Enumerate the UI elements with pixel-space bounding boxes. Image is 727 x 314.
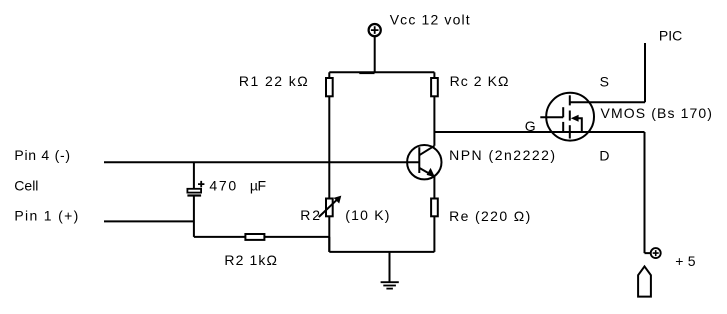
mosfet U1 VMOS xyxy=(540,93,594,141)
power symbol Vcc xyxy=(369,24,381,36)
wire source lead to PIC xyxy=(570,43,645,102)
wire potentiometer bottom to ground rail xyxy=(328,216,330,252)
svg-text:PIC: PIC xyxy=(659,28,682,44)
svg-text:D: D xyxy=(599,148,609,164)
svg-text:VMOS (Bs 170): VMOS (Bs 170) xyxy=(601,105,714,121)
wire Rc top stem xyxy=(433,72,435,78)
wire R2 1k to potentiometer bottom xyxy=(264,237,329,252)
transistor Q1 NPN xyxy=(407,145,441,179)
wire Re bottom to ground rail xyxy=(433,216,435,252)
wire emitter to Re xyxy=(433,177,435,199)
wire ground rail xyxy=(329,251,434,253)
wire Pin 1 line xyxy=(104,220,194,222)
svg-text:Pin 1 (+): Pin 1 (+) xyxy=(14,207,79,223)
svg-text:+ 5: + 5 xyxy=(675,253,695,269)
resistor R1 xyxy=(326,78,333,96)
wire to R2 1k xyxy=(194,236,246,238)
svg-text:µF: µF xyxy=(250,178,266,194)
svg-text:Re (220 Ω): Re (220 Ω) xyxy=(449,208,532,224)
wire collector node to drain line xyxy=(434,131,644,133)
svg-text:Cell: Cell xyxy=(14,178,38,194)
svg-text:470: 470 xyxy=(209,178,237,194)
connector pointer symbol xyxy=(638,266,651,296)
svg-text:R1 22 kΩ: R1 22 kΩ xyxy=(239,73,309,89)
capacitor C1 470uF xyxy=(187,181,204,196)
ground xyxy=(381,252,399,289)
potentiometer R2 body xyxy=(326,199,333,217)
wire R1 bottom to potentiometer xyxy=(328,96,330,198)
svg-text:R2 1kΩ: R2 1kΩ xyxy=(224,252,278,268)
svg-text:NPN (2n2222): NPN (2n2222) xyxy=(449,147,556,163)
svg-text:G: G xyxy=(525,118,536,134)
svg-text:Pin 4 (-): Pin 4 (-) xyxy=(14,147,70,163)
svg-text:Vcc 12 volt: Vcc 12 volt xyxy=(390,12,471,28)
svg-text:Rc 2 KΩ: Rc 2 KΩ xyxy=(450,73,510,89)
potentiometer arrow xyxy=(319,196,342,217)
resistor Re xyxy=(431,199,438,217)
wire base Pin 4 line xyxy=(104,161,419,163)
resistor R2 1k xyxy=(245,234,264,240)
svg-text:(10 K): (10 K) xyxy=(345,207,390,223)
wire top rail xyxy=(329,71,434,73)
wire capacitor bottom stem xyxy=(193,196,195,237)
wire drain down to +5 xyxy=(645,132,651,253)
wire capacitor top stem xyxy=(193,162,195,189)
power symbol +5 xyxy=(651,248,661,258)
wire Vcc stem xyxy=(374,36,376,72)
wire rail overdraw tick xyxy=(359,72,374,74)
svg-text:S: S xyxy=(600,73,609,89)
wire R1 top stem xyxy=(328,72,330,78)
wire Rc bottom to collector xyxy=(433,96,435,146)
resistor Rc xyxy=(431,78,438,96)
svg-text:R2: R2 xyxy=(300,207,322,223)
